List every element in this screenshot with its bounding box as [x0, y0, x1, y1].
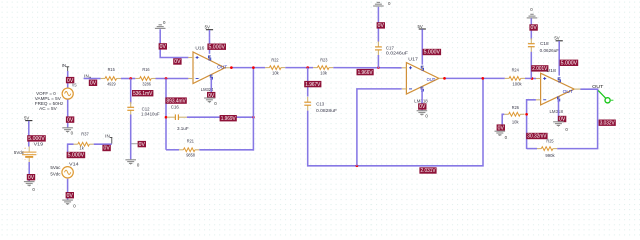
off-page connector IN (filter input) [84, 73, 90, 78]
svg-text:R24: R24 [512, 68, 520, 73]
svg-text:1.0410uF: 1.0410uF [141, 112, 160, 117]
svg-text:0V: 0V [498, 125, 505, 131]
svg-text:U18: U18 [546, 68, 556, 73]
svg-text:LM318: LM318 [414, 99, 428, 104]
wire IN to R15 [84, 78, 101, 80]
resistor R37 [74, 142, 94, 146]
resistor R21 [179, 148, 199, 152]
svg-text:IN: IN [84, 73, 89, 78]
voltage label 893.4mV (node B) [165, 97, 186, 103]
svg-text:OUT: OUT [563, 89, 574, 94]
resistor R15 [101, 77, 121, 81]
junction C18 tap [531, 77, 534, 80]
svg-text:C13: C13 [316, 102, 324, 107]
svg-text:+: + [24, 146, 26, 150]
svg-text:R23: R23 [320, 58, 328, 63]
wire VS top node [67, 71, 69, 88]
svg-text:C16: C16 [171, 105, 179, 110]
power symbol 5V (U16) [205, 25, 213, 33]
wire V19 top [28, 121, 30, 147]
voltage label 2.031V (U17 output loop) [419, 167, 436, 173]
junction node B [165, 77, 168, 80]
svg-text:0V: 0V [104, 146, 111, 152]
voltage label 0V (U17 V-) [418, 103, 426, 109]
junction U17 output pin [443, 77, 446, 80]
svg-text:R16: R16 [142, 67, 150, 72]
svg-text:1.967V: 1.967V [305, 82, 321, 88]
svg-text:536.1mV: 536.1mV [133, 91, 153, 97]
off-page connector IN (R37) [105, 134, 112, 144]
capacitor C17 [375, 42, 382, 56]
wire R15 to R16 [121, 78, 135, 80]
svg-text:5Vdc: 5Vdc [14, 150, 25, 155]
svg-text:0.0828uF: 0.0828uF [316, 108, 337, 113]
ground 0 (C12) [125, 160, 139, 168]
svg-text:5V: 5V [417, 24, 422, 29]
svg-text:0V: 0V [419, 104, 426, 110]
svg-text:R15: R15 [108, 67, 116, 72]
op-amp U17 [402, 63, 446, 95]
svg-text:10k: 10k [272, 71, 279, 76]
voltage label 3.032V (output) [599, 120, 616, 126]
resistor R26 [504, 112, 524, 116]
wire C16 to output vertical [187, 116, 254, 118]
svg-text:0V: 0V [378, 23, 385, 29]
wire R25 row [527, 148, 537, 150]
wire 5V to U17 V+ [421, 29, 423, 64]
ground 0 (U16 + input, inverted) [155, 20, 166, 28]
voltage label 0V (U16 V-) [207, 92, 215, 98]
svg-text:0V: 0V [67, 193, 74, 199]
svg-text:0V: 0V [67, 117, 74, 123]
svg-text:R21: R21 [187, 139, 195, 144]
svg-text:1.966V: 1.966V [358, 70, 374, 76]
voltage label 5.000V (V14+) [67, 152, 86, 158]
svg-text:U17: U17 [408, 57, 418, 62]
wire feedback vertical to U16 output [252, 68, 254, 151]
wire R21 row left [166, 149, 179, 151]
voltage label 1.967V (node C) [304, 81, 321, 87]
power symbol 5V (V19) [24, 115, 32, 123]
junction node B / C16 tee [165, 116, 168, 119]
svg-text:IN: IN [62, 63, 67, 68]
voltage label 0V (VS+ node) [66, 77, 74, 83]
wire U17 output [444, 77, 505, 79]
svg-text:0V: 0V [174, 59, 181, 65]
svg-text:5.000V: 5.000V [424, 50, 441, 56]
wire C18 to + node [530, 52, 532, 79]
capacitor C12 [127, 102, 134, 116]
svg-text:AC = 5V: AC = 5V [39, 106, 57, 111]
svg-text:R26: R26 [512, 105, 520, 110]
junction feedback tap [252, 66, 255, 69]
svg-text:0V: 0V [28, 175, 35, 181]
DC source V19 battery [22, 146, 36, 162]
capacitor C13 [304, 97, 311, 111]
voltage label 5.000V (U16 V+) [207, 44, 226, 50]
labels 5Vac 5Vdc (V14) [50, 165, 61, 176]
ground 0 (VS) [62, 128, 73, 136]
svg-text:0.0626uF: 0.0626uF [540, 48, 560, 53]
svg-text:0V: 0V [531, 25, 538, 31]
svg-text:R37: R37 [81, 131, 89, 136]
wire R26 to ground [502, 114, 504, 124]
wire ground to C17 [377, 7, 379, 42]
svg-text:VS: VS [72, 83, 77, 88]
power symbol 5V (U18) [554, 36, 562, 44]
ground 0 (C17 top, inverted) [373, 1, 391, 6]
svg-text:100k: 100k [512, 82, 522, 87]
svg-text:V14: V14 [69, 161, 79, 166]
junction node C (R22/R23/C13) [306, 66, 309, 69]
voltage label 1.969V (feedback node) [220, 115, 237, 121]
output port pin (green) [598, 90, 613, 103]
voltage label 0V (U16 + input wire) [173, 58, 181, 64]
voltage label 0V (R26 left) [497, 124, 505, 130]
svg-text:5V: 5V [554, 36, 559, 41]
VS parameters text [35, 91, 63, 111]
svg-text:R25: R25 [546, 139, 554, 144]
voltage label 1.966V (U17 + node) [357, 69, 374, 75]
voltage label 0V (C18 top) [529, 24, 537, 30]
voltage label 0V (VS- node) [66, 116, 74, 122]
voltage label 5.000V (V19+) [27, 135, 46, 141]
voltage label 536.1mV (node A) [132, 90, 153, 96]
capacitor C18 [528, 38, 535, 52]
ground 0 (V19) [24, 182, 36, 193]
junction node A [129, 77, 132, 80]
svg-text:3286: 3286 [142, 81, 151, 86]
wire node B down to feedback tee [165, 79, 167, 150]
svg-text:5Vdc: 5Vdc [50, 171, 61, 176]
junction C16/R21 vertical [252, 116, 255, 119]
wire R25 to output vertical [557, 89, 597, 148]
wire V19 bottom [28, 162, 30, 181]
svg-text:OUT: OUT [217, 65, 227, 70]
wire V14 bottom [67, 179, 69, 200]
svg-text:0V: 0V [160, 44, 167, 50]
svg-text:OUT: OUT [427, 77, 436, 82]
resistor R24 [505, 77, 525, 81]
voltage label 0V (IN node) [89, 80, 97, 86]
wire V14 to R37 corner [68, 144, 74, 152]
wire R23 to U17 + input [333, 67, 401, 69]
voltage label 0V (R37 right node) [102, 145, 110, 151]
svg-text:V19: V19 [34, 142, 44, 147]
wire U16 output [231, 67, 265, 69]
wire R24 to U18 + input [525, 77, 536, 79]
svg-text:30.32mV: 30.32mV [527, 134, 547, 140]
svg-text:0V: 0V [139, 142, 146, 148]
svg-text:0V: 0V [90, 81, 97, 87]
svg-text:5Vac: 5Vac [50, 165, 61, 170]
wire 5V to U16 V+ [209, 30, 211, 54]
voltage label 0V (U18 V-) [558, 116, 566, 122]
voltage label 0V (V14-) [66, 192, 74, 198]
wire U18 V- to ground [558, 99, 560, 122]
ground 0 (C18 top, inverted) [527, 7, 538, 18]
svg-text:U16: U16 [195, 46, 205, 51]
wire 5V to U18 V+ [558, 41, 560, 76]
wire ground to C18 [530, 18, 532, 39]
svg-text:5.000V: 5.000V [209, 44, 226, 50]
svg-text:5V: 5V [205, 25, 210, 30]
wire R16 to U16 inverting input [156, 78, 189, 80]
svg-text:OUT: OUT [592, 84, 603, 89]
wire U18 - input to divider [527, 100, 536, 149]
svg-text:LM318: LM318 [550, 109, 564, 114]
svg-text:5V: 5V [24, 115, 29, 120]
svg-text:990k: 990k [545, 153, 555, 158]
wire C17 to + node [377, 55, 379, 68]
wire U17 - input [357, 89, 402, 166]
op-amp U16 [188, 52, 231, 84]
svg-text:4929: 4929 [107, 81, 116, 86]
svg-text:5.000V: 5.000V [561, 61, 578, 67]
svg-text:−: − [24, 158, 26, 162]
wire VS bottom to ground [67, 100, 69, 128]
ground 0 (U16 V-) [204, 98, 217, 106]
resistor R16 [135, 77, 155, 81]
svg-text:2.031V: 2.031V [421, 168, 437, 174]
wire U16 V- to ground [210, 78, 212, 98]
voltage label 0V (V19-) [27, 174, 35, 180]
ground 0 (R26) [495, 131, 508, 140]
junction feedback tap (U17) [481, 77, 484, 80]
svg-text:3.1uF: 3.1uF [177, 126, 189, 131]
wire R37 to IN connector [94, 143, 112, 145]
svg-text:0.0246uF: 0.0246uF [386, 51, 408, 56]
svg-text:IN: IN [105, 134, 110, 139]
svg-text:893.4mV: 893.4mV [167, 98, 187, 104]
ground 0 (U18 V-) [553, 122, 568, 132]
svg-text:10k: 10k [320, 71, 327, 76]
junction U17 - input on loop [356, 164, 359, 167]
junction U16 output pin [230, 66, 233, 69]
wire C13 branch down from node C [307, 68, 309, 97]
AC/DC source V14 [62, 167, 73, 178]
wire node A down to C12 [130, 79, 132, 104]
wire ground to U16 + input [160, 29, 188, 57]
wire C13 to U17 feedback loop [308, 78, 483, 165]
voltage label 0V (C12 bottom) [132, 141, 147, 148]
wire U17 V- to ground [421, 89, 423, 111]
voltage label 5.000V (U17 V+) [423, 49, 442, 55]
voltage label 0V (U16 + input) [159, 43, 167, 49]
wire R21 to output vertical [199, 149, 253, 151]
svg-text:1.969V: 1.969V [221, 116, 237, 122]
svg-text:1k: 1k [79, 146, 84, 151]
svg-text:C18: C18 [540, 41, 549, 46]
junction R26/R25 node [525, 113, 528, 116]
AC source VS [62, 88, 73, 99]
svg-text:10k: 10k [512, 119, 519, 124]
ground 0 (V14) [62, 200, 76, 209]
op-amp U18 [536, 73, 581, 105]
voltage label 5.000V (U18 V+) [560, 60, 579, 66]
resistor R23 [313, 66, 333, 70]
off-page connector IN (source VS top) [62, 63, 70, 71]
svg-text:5.000V: 5.000V [68, 153, 85, 159]
svg-text:R22: R22 [271, 58, 279, 63]
capacitor C16 (feedback) [167, 114, 187, 120]
ground 0 (U17 V-) [417, 111, 429, 119]
wire R22 to R23 [285, 67, 313, 69]
resistor R22 [265, 66, 285, 70]
svg-text:9858: 9858 [186, 153, 195, 158]
junction C17 tap [377, 66, 380, 69]
resistor R25 [537, 147, 557, 151]
voltage label 30.32mV (divider node) [526, 133, 547, 139]
voltage label 2.001V (U18 + node) [531, 65, 548, 71]
voltage label 0V (C17 top) [377, 22, 385, 28]
wire C12 to ground [130, 115, 132, 160]
power symbol 5V (U17) [417, 24, 425, 32]
wire U18 output [580, 88, 598, 90]
svg-text:3.032V: 3.032V [600, 120, 616, 126]
